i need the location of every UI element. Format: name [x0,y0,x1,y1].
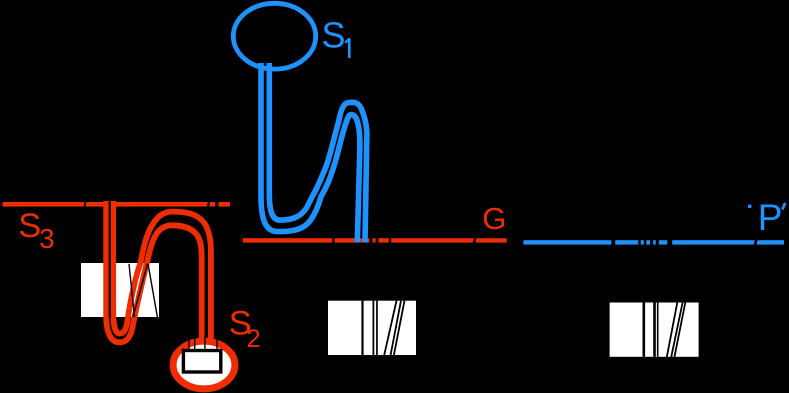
S3 line end dash [219,202,231,207]
tick on P' line [650,240,653,245]
tick on P' line [656,240,659,245]
vertical line [643,303,646,357]
diagonal line [384,301,397,356]
tick on P' line [611,240,615,245]
vertical line [361,301,363,355]
S1 loop circle (blue) [233,3,315,69]
tick on P' line (slanted) [754,239,758,245]
exon box B3 (right, white) [610,303,699,359]
prime mark of P' [782,203,785,210]
tick on G line [376,238,379,243]
black strand line B1c (over tube) [148,264,157,317]
S2 circle (red, white fill) [173,341,235,389]
tick on S3 line [84,201,87,207]
subscript 1 of S1 [348,38,351,58]
exon box B2 (middle, white) [328,301,416,357]
S3 line (red horizontal) [3,202,216,207]
tick above S2 rect [188,337,189,351]
tick on P' line [644,240,647,245]
svg-text:P: P [758,197,783,238]
vertical line [653,303,656,357]
black rectangle inside S2 circle [183,351,220,373]
tick on G line [332,238,334,243]
exon box B1 (left, white) [81,263,159,317]
tick above S2 rect [204,337,205,351]
red intron strand B (inner: right rail, U top, slant west, arch outer, right limb east) [113,201,211,341]
black strand line B1b (over tube) [133,264,148,317]
vertical line [376,301,378,355]
tick on S3 line [207,201,210,207]
P' line (blue horizontal) [523,240,784,244]
svg-text:S: S [18,207,41,245]
tick above S2 rect [194,337,195,351]
diagonal line [671,303,683,359]
G line (red horizontal) [243,238,507,242]
small blue mark left of P' [748,205,751,208]
black center line of red vertical pair (notch at S3 junction down through box) [109,201,111,317]
tick on P' line [638,240,640,245]
blue intron strand R (east rail, U top, slant west, apex outer, right limb east) [269,63,367,242]
svg-text:2: 2 [247,325,261,353]
vertical line [657,303,659,357]
svg-text:S: S [322,14,346,55]
diagonal line [674,303,685,359]
vertical line [373,301,375,355]
black strand line B1a (over tube) [129,264,135,317]
tick on G line [389,238,392,243]
svg-text:G: G [482,201,506,236]
blue intron strand L (west rail, U bottom, slant east, apex inner, right limb west) [261,63,360,242]
tick on P' line [667,240,672,245]
diagonal line [390,301,401,357]
tick above S2 rect [216,337,217,351]
diagonal line [394,301,405,357]
red intron strand A (outer: left rail, U bottom, slant east, arch inner, right limb west) [106,201,202,342]
diagonal line [667,303,678,359]
tick on G line (slanted) [473,237,477,243]
tick on G line [369,238,372,243]
svg-text:3: 3 [39,223,54,254]
